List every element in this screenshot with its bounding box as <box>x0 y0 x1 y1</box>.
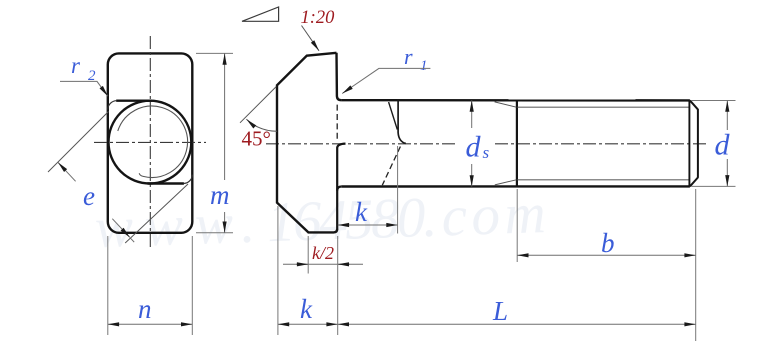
dimension b line <box>517 254 696 256</box>
dimension e line lower segment <box>112 219 134 242</box>
label r1 <box>404 44 428 74</box>
hidden dashed line at head joint <box>336 105 338 141</box>
taper symbol triangle <box>242 7 279 21</box>
dimension k bottom extension right <box>337 236 339 335</box>
shank bottom line <box>341 185 690 188</box>
boss circle (outer thick) <box>108 101 191 184</box>
label e <box>83 181 95 211</box>
svg-text:45°: 45° <box>242 127 271 151</box>
horizontal centerline <box>94 141 206 143</box>
dimension b extension right <box>695 189 697 341</box>
fillet r2 bottom-right <box>184 175 193 184</box>
tangent line top-left <box>116 99 152 101</box>
label d <box>715 129 731 162</box>
svg-text:1:20: 1:20 <box>301 8 336 28</box>
square neck diagonal edge 2 <box>125 184 188 243</box>
leader r2 <box>60 81 108 96</box>
end chamfer top <box>690 100 698 109</box>
svg-text:k: k <box>355 197 368 227</box>
leader r1 <box>342 68 430 93</box>
hidden dashed neck edge below axis <box>382 147 400 186</box>
dimension e line upper segment <box>58 162 76 181</box>
thread start line <box>516 100 518 186</box>
end chamfer bottom <box>690 178 698 187</box>
label ds <box>466 131 490 164</box>
bolt axis centerline <box>266 143 709 145</box>
svg-text:d: d <box>715 129 731 162</box>
head right edge top <box>337 53 342 100</box>
thread minor line top <box>518 106 690 108</box>
tangent line bottom-right <box>148 182 184 184</box>
label k/2 <box>312 243 334 263</box>
head front outline (rounded square) <box>108 53 193 232</box>
watermark <box>94 181 551 261</box>
45 deg chamfer extension line <box>240 87 276 123</box>
label 45 deg <box>242 127 271 151</box>
dimension n extension left <box>107 236 109 335</box>
inner thin circle (shank arc) <box>118 106 188 177</box>
svg-text:L: L <box>492 296 508 326</box>
label L <box>492 296 508 326</box>
square neck runout diagonal <box>389 102 398 129</box>
label m <box>210 180 230 210</box>
head profile outline <box>277 53 337 233</box>
dimension m extension bottom <box>196 232 233 234</box>
label n <box>138 294 152 324</box>
svg-text:k: k <box>300 294 313 324</box>
thread runout top <box>495 102 517 107</box>
svg-text:s: s <box>483 143 490 162</box>
label k bottom <box>300 294 313 324</box>
dimension d line <box>726 101 728 187</box>
vertical centerline <box>149 36 151 249</box>
dimension n line <box>108 323 193 325</box>
thread end chamfer edge <box>688 100 690 186</box>
thread runout bottom <box>495 180 517 185</box>
shank top line <box>341 99 690 102</box>
dimension d extension bottom <box>692 185 736 187</box>
svg-text:k/2: k/2 <box>312 243 334 263</box>
thread minor line bottom <box>518 179 690 181</box>
dimension m extension top <box>196 52 233 54</box>
shank bottom fillet at head <box>337 187 341 191</box>
svg-text:1: 1 <box>420 58 428 74</box>
dimension ds line <box>471 100 473 186</box>
45 deg arc <box>246 119 277 131</box>
dimension b extension left <box>516 189 518 262</box>
square neck diagonal edge 1 <box>48 112 109 173</box>
svg-text:r: r <box>71 53 81 78</box>
dimension m line <box>224 53 226 232</box>
dimension k upper extension <box>397 146 399 234</box>
dimension n extension right <box>191 236 193 335</box>
fillet r2 top-left <box>108 101 117 110</box>
svg-text:m: m <box>210 180 230 210</box>
label 1:20 <box>301 8 336 28</box>
dimension k bottom extension left <box>277 206 279 335</box>
dimension L line <box>338 323 696 325</box>
dimension k bottom line <box>278 323 338 325</box>
label b <box>601 228 615 258</box>
svg-text:r: r <box>404 44 413 69</box>
dimension k/2 line <box>283 263 363 265</box>
head right edge bottom with neck fillet curl <box>337 144 345 230</box>
dimension k/2 extension <box>307 236 309 274</box>
svg-text:b: b <box>601 228 615 258</box>
dimension d extension top <box>692 100 736 102</box>
svg-text:n: n <box>138 294 152 324</box>
end face <box>697 109 699 178</box>
square neck end vertical <box>398 100 406 143</box>
dimension k upper line <box>338 224 398 226</box>
label k upper <box>355 197 368 227</box>
leader 1:20 <box>302 26 320 51</box>
svg-text:e: e <box>83 181 95 211</box>
svg-text:d: d <box>466 131 482 164</box>
label r2 <box>71 53 96 84</box>
